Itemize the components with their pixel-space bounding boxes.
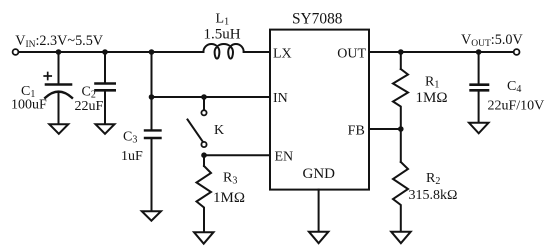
svg-text:1uF: 1uF (121, 149, 143, 164)
wire OUT rail (369, 51, 514, 53)
svg-text:K: K (214, 123, 224, 138)
resistor R3 (197, 166, 212, 232)
svg-text:SY7088: SY7088 (292, 11, 343, 28)
svg-text:EN: EN (275, 150, 294, 165)
node switch/EN line (201, 152, 207, 158)
wire IN line (152, 96, 271, 98)
ground (C4) (469, 123, 489, 134)
svg-text:VOUT:5.0V: VOUT:5.0V (461, 32, 523, 49)
node C3/IN line (149, 94, 155, 100)
svg-text:1.5uH: 1.5uH (204, 27, 241, 43)
node C2/input rail (102, 49, 108, 55)
ground (C1) (49, 124, 68, 134)
svg-text:L1: L1 (216, 12, 230, 28)
ground (C3) (142, 211, 161, 221)
svg-text:GND: GND (303, 166, 336, 182)
wire FB line (369, 128, 401, 130)
input terminal (13, 49, 19, 55)
node C4/output rail (476, 49, 482, 55)
svg-text:OUT: OUT (337, 47, 366, 62)
ground (R3) (194, 232, 214, 244)
svg-text:1MΩ: 1MΩ (213, 190, 245, 206)
op IC box SY7088 (270, 30, 369, 190)
wire input rail (19, 51, 204, 53)
svg-text:LX: LX (273, 47, 292, 62)
wire EN line (204, 154, 270, 156)
ground (R2) (391, 232, 411, 244)
node C3 branch/input rail (149, 49, 155, 55)
output terminal (514, 49, 520, 55)
svg-text:R3: R3 (223, 171, 237, 187)
node switch/IN line (201, 94, 207, 100)
wire LX segment (244, 51, 270, 53)
svg-text:315.8kΩ: 315.8kΩ (409, 188, 458, 203)
svg-text:VIN:2.3V~5.5V: VIN:2.3V~5.5V (15, 33, 104, 50)
capacitor C4 (471, 52, 488, 123)
node FB/R1/R2 (398, 126, 404, 132)
node C1/input rail (56, 49, 62, 55)
svg-text:1MΩ: 1MΩ (416, 90, 448, 106)
capacitor C2 (96, 52, 115, 124)
node R1/output rail (398, 49, 404, 55)
ground (IC GND) (309, 232, 329, 244)
wire R2 top (400, 129, 402, 162)
wire GND pin (318, 190, 320, 232)
svg-text:R2: R2 (426, 171, 440, 187)
inductor L1 (203, 44, 243, 59)
svg-text:R1: R1 (425, 75, 439, 91)
svg-text:100uF: 100uF (11, 98, 47, 113)
wire R1 top (400, 52, 402, 69)
wire switch to R3 (203, 155, 205, 166)
switch K (188, 97, 207, 147)
resistor R1 (393, 69, 408, 129)
capacitor C3 (145, 130, 161, 211)
svg-text:IN: IN (273, 91, 288, 106)
ground (C2) (96, 124, 115, 134)
svg-text:FB: FB (348, 124, 365, 139)
svg-text:C3: C3 (123, 130, 137, 146)
svg-text:C4: C4 (507, 79, 521, 95)
svg-text:22uF/10V: 22uF/10V (488, 99, 545, 114)
capacitor C1 (44, 52, 72, 124)
wire C3 branch vertical (151, 52, 153, 131)
svg-text:22uF: 22uF (75, 99, 104, 114)
resistor R2 (393, 162, 408, 232)
